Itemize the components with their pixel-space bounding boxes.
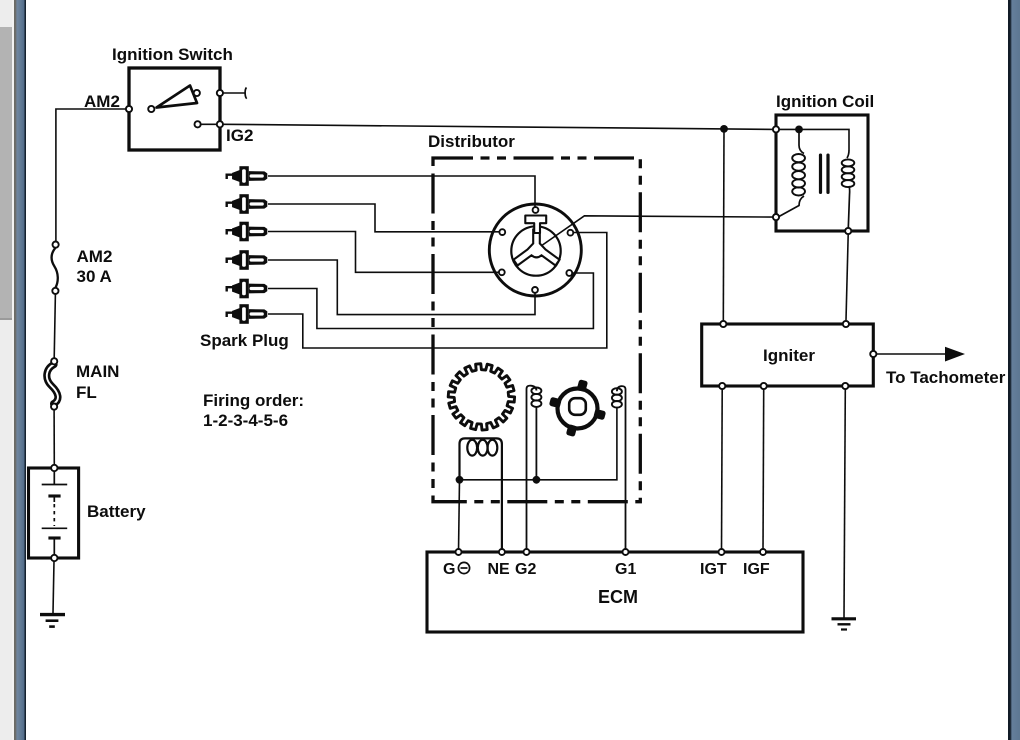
cap terminal top — [533, 207, 539, 213]
svg-text:IGT: IGT — [700, 561, 727, 578]
wire plug5 to cap lower-right terminal — [268, 273, 593, 329]
G pickup coil right (G1) — [612, 386, 626, 552]
wire G- to ECM — [459, 480, 460, 552]
ECM terminal IGT — [719, 549, 725, 555]
wire coil bottom to igniter — [846, 234, 848, 324]
junction dot B — [533, 476, 541, 484]
arrowhead — [945, 347, 965, 362]
fuse AM2 30A — [52, 242, 59, 295]
ignition coil box — [776, 115, 868, 231]
wire IG2 junction to igniter — [722, 129, 725, 324]
svg-text:AM2: AM2 — [77, 247, 113, 266]
ECM terminal NE — [499, 549, 505, 555]
primary bottom lead — [779, 196, 804, 217]
wire IG2 to ignition coil — [223, 124, 776, 129]
wire plug3 to cap lower-left terminal — [268, 232, 499, 273]
wire IGT igniter to ECM — [721, 389, 724, 552]
junction dot primary — [795, 125, 803, 133]
svg-text:Ignition Coil: Ignition Coil — [776, 92, 874, 111]
cap terminal lower-right — [566, 270, 572, 276]
spark plug 2 — [227, 194, 268, 214]
svg-text:FL: FL — [76, 383, 97, 402]
wire battery to ground — [53, 561, 54, 613]
igniter terminal bottom right — [842, 383, 848, 389]
wire to tachometer — [876, 353, 947, 355]
fusible link MAIN FL — [47, 358, 58, 410]
svg-text:G: G — [443, 561, 455, 578]
battery — [29, 465, 79, 561]
svg-text:Igniter: Igniter — [763, 346, 815, 365]
svg-text:MAIN: MAIN — [76, 362, 119, 381]
wire IGF igniter to ECM — [762, 389, 765, 552]
svg-text:G2: G2 — [515, 561, 536, 578]
igniter terminal top-left — [720, 321, 726, 327]
secondary bottom lead — [848, 186, 849, 228]
rotor — [514, 230, 560, 266]
svg-text:NE: NE — [488, 561, 511, 578]
spark plug 3 — [227, 222, 268, 242]
ECM terminal G2 — [524, 549, 530, 555]
wire plug4 to cap bottom terminal — [268, 260, 535, 315]
svg-text:Spark Plug: Spark Plug — [200, 331, 289, 350]
junction dot A (G- node) — [456, 476, 464, 484]
cap terminal upper-left — [499, 229, 505, 235]
svg-text:30 A: 30 A — [77, 267, 112, 286]
igniter terminal right — [870, 351, 876, 357]
junction dot IG2 — [720, 125, 728, 133]
ignition switch box — [129, 68, 220, 150]
svg-text:Firing order:: Firing order: — [203, 391, 304, 410]
spark plug 6 — [227, 304, 268, 324]
svg-text:ECM: ECM — [598, 587, 638, 607]
switch terminal circles — [126, 90, 223, 128]
wire plug6 to cap upper-right terminal — [268, 233, 607, 349]
svg-text:IG2: IG2 — [226, 126, 253, 145]
distributor dashed border — [433, 158, 640, 502]
coil terminal bottom — [845, 228, 851, 234]
cap terminal lower-left — [499, 269, 505, 275]
NE pickup coil loops — [467, 440, 497, 456]
svg-text:Distributor: Distributor — [428, 132, 515, 151]
G signal rotor (4-lobe) — [549, 379, 606, 437]
ground (battery) — [40, 615, 65, 627]
cap terminal bottom — [532, 287, 538, 293]
primary winding — [792, 154, 805, 195]
wire AM2 rail: switch to fuse — [56, 109, 129, 242]
NE pickup coil bracket — [460, 438, 502, 552]
ECM box — [427, 552, 803, 632]
wire pickup common — [460, 408, 617, 480]
svg-text:Battery: Battery — [87, 502, 146, 521]
spark plug 5 — [227, 279, 268, 299]
coil terminal top-left — [773, 126, 779, 132]
G pickup coil left (G2) — [527, 386, 542, 552]
wire plug2 to cap upper-left terminal — [268, 204, 499, 232]
igniter terminal bottom IGT — [719, 383, 725, 389]
svg-text:G1: G1 — [615, 561, 636, 578]
spark plug 4 — [227, 250, 268, 270]
igniter terminal bottom IGF — [761, 383, 767, 389]
wire rotor to coil secondary — [542, 216, 776, 246]
svg-text:1-2-3-4-5-6: 1-2-3-4-5-6 — [203, 411, 288, 430]
ECM terminal G1 — [623, 549, 629, 555]
secondary winding lead — [847, 150, 849, 158]
svg-text:To Tachometer: To Tachometer — [886, 368, 1006, 387]
coil internal top wire — [776, 129, 849, 150]
coil terminal bottom-left — [773, 214, 779, 220]
open end tick — [245, 88, 247, 99]
core lines — [819, 155, 822, 192]
wire IG2 contact stub — [201, 123, 217, 125]
wire fusible link to battery — [53, 410, 55, 465]
wire plug1 to cap top terminal — [268, 176, 535, 207]
ground (igniter) — [832, 619, 857, 630]
ECM terminal IGF — [760, 549, 766, 555]
wire fuse to fusible link — [54, 294, 55, 358]
switch contact wire (upper) — [223, 92, 246, 94]
cap terminal upper-right — [568, 230, 574, 236]
svg-text:AM2: AM2 — [84, 92, 120, 111]
switch lever — [157, 86, 198, 108]
igniter box — [702, 324, 874, 386]
secondary winding — [842, 159, 855, 187]
coil tower T — [525, 216, 546, 234]
svg-text:Ignition Switch: Ignition Switch — [112, 45, 233, 64]
NE signal rotor (gear) — [448, 364, 514, 430]
distributor cap inner circle — [511, 226, 560, 275]
ECM terminal G- — [456, 549, 462, 555]
svg-text:IGF: IGF — [743, 561, 770, 578]
spark plug 1 — [227, 166, 268, 186]
distributor cap outer circle — [489, 204, 581, 296]
wire igniter to ground — [844, 389, 845, 618]
primary winding lead — [799, 129, 804, 153]
igniter terminal top-right — [843, 321, 849, 327]
